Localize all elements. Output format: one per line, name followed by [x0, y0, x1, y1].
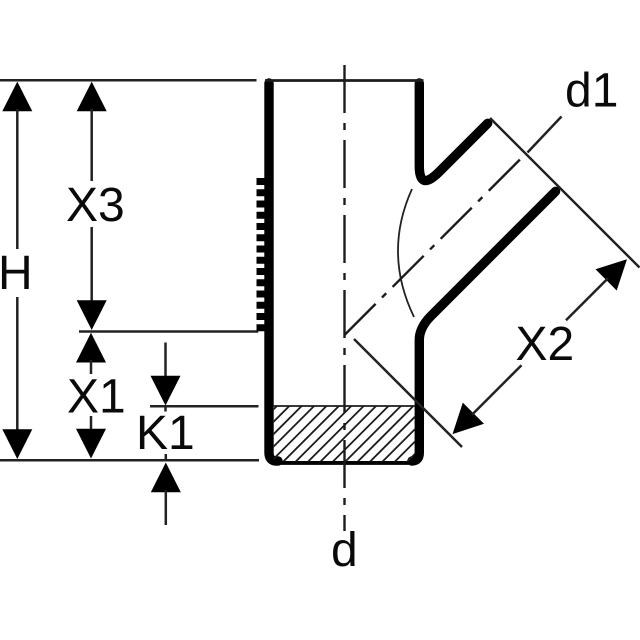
pipe top edge	[265, 79, 424, 82]
wire X3/X1 boundary reference line	[79, 330, 258, 333]
node K1 dimension arrow down	[151, 343, 181, 412]
branch bore intersection arc	[398, 189, 414, 317]
node X3 dimension arrow up	[77, 82, 107, 181]
leader line to label d1	[528, 117, 562, 153]
node X2 dimension arrow upper	[566, 259, 627, 320]
pipe lower right wall with bottom corner foot and branch lower edge	[412, 191, 556, 461]
svg-text:X3: X3	[66, 179, 125, 232]
node X2 dimension arrow lower	[453, 365, 522, 434]
node K1 dimension arrow up	[151, 454, 181, 525]
node X1 dimension arrow down	[76, 416, 106, 459]
branch centerline d1	[345, 159, 522, 336]
pipe upper right wall into branch upper edge	[419, 83, 487, 181]
svg-text:d: d	[331, 524, 358, 577]
svg-text:X1: X1	[67, 371, 126, 424]
wire top dimension reference line	[0, 79, 257, 82]
main pipe centerline d	[343, 65, 345, 531]
node X3 dimension arrow down	[77, 227, 107, 330]
node H dimension arrow up	[2, 82, 32, 249]
branch end face extension line	[490, 118, 640, 268]
socket depth hatching	[209, 402, 467, 462]
pipe spigot ribs on left wall	[257, 178, 267, 331]
node H dimension arrow down	[2, 297, 32, 459]
svg-text:d1: d1	[565, 65, 618, 118]
svg-text:X2: X2	[516, 318, 575, 371]
pipe bottom socket edge	[274, 461, 415, 465]
wire bottom dimension reference line	[0, 459, 259, 462]
svg-text:K1: K1	[136, 407, 195, 460]
branch root extension line	[354, 339, 462, 447]
pipe left wall with bottom corner foot	[269, 83, 278, 461]
socket depth hatch top boundary line	[274, 405, 415, 407]
svg-text:H: H	[0, 247, 33, 300]
node X1 dimension arrow up	[76, 333, 106, 374]
wire K1 reference line	[150, 405, 259, 408]
